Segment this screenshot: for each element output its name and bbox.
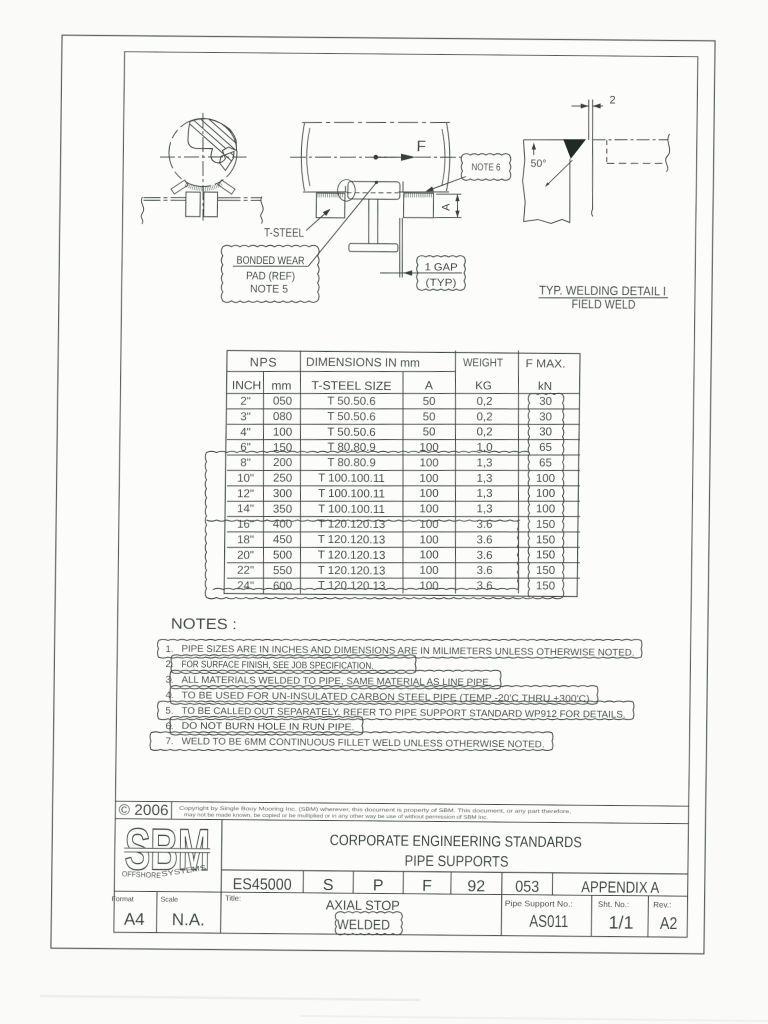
- svg-text:50: 50: [423, 427, 436, 439]
- svg-text:080: 080: [273, 411, 292, 423]
- sheet inner border: [114, 52, 698, 938]
- svg-text:1,3: 1,3: [476, 503, 492, 515]
- weld fillet (solid): [563, 139, 586, 159]
- svg-text:18": 18": [237, 534, 254, 546]
- svg-text:1,3: 1,3: [476, 457, 492, 469]
- svg-text:A: A: [425, 378, 433, 392]
- svg-text:NOTE 6: NOTE 6: [471, 162, 500, 173]
- gap dimension arrow: [380, 272, 462, 273]
- right wear-pad wing: [218, 180, 235, 194]
- svg-text:A: A: [440, 203, 452, 211]
- svg-text:0,2: 0,2: [476, 411, 492, 423]
- svg-text:150: 150: [536, 519, 555, 531]
- svg-text:100: 100: [419, 488, 438, 500]
- axial stop web: [368, 199, 369, 244]
- dimension A line: [456, 194, 459, 217]
- svg-text:WELDED: WELDED: [337, 916, 390, 932]
- svg-text:4": 4": [240, 427, 251, 439]
- svg-text:0,2: 0,2: [476, 427, 492, 439]
- svg-text:T 50.50.6: T 50.50.6: [327, 426, 376, 438]
- left wear-pad wing: [171, 180, 188, 194]
- section hatch blob: [173, 109, 302, 165]
- gap lines: [399, 218, 400, 278]
- svg-text:F MAX.: F MAX.: [525, 358, 565, 370]
- svg-text:S: S: [323, 877, 334, 894]
- svg-text:450: 450: [273, 534, 292, 546]
- svg-text:3.6: 3.6: [477, 580, 493, 592]
- note6 leader: [428, 176, 466, 191]
- run pipe break squiggle: [665, 134, 669, 172]
- svg-text:5.: 5.: [165, 706, 173, 717]
- svg-text:A2: A2: [660, 914, 678, 933]
- weld gap lines: [587, 99, 590, 140]
- svg-text:OFFSHORE: OFFSHORE: [122, 869, 161, 880]
- svg-text:(TYP): (TYP): [425, 277, 456, 289]
- svg-text:APPENDIX A: APPENDIX A: [581, 879, 659, 897]
- svg-text:PIPE SUPPORTS: PIPE SUPPORTS: [404, 853, 508, 871]
- table revision clouds: [526, 394, 532, 597]
- svg-text:150: 150: [536, 550, 555, 562]
- left support rail: [144, 196, 187, 199]
- svg-text:10": 10": [237, 473, 254, 485]
- svg-text:1,3: 1,3: [476, 488, 492, 500]
- svg-text:150: 150: [536, 580, 555, 592]
- left wear pad serration: [317, 193, 319, 197]
- svg-text:AS011: AS011: [529, 912, 568, 931]
- SBM logo letters: [124, 815, 210, 882]
- svg-text:Title:: Title:: [225, 894, 241, 903]
- svg-text:T 120.120.13: T 120.120.13: [318, 580, 386, 593]
- right rail break squiggle: [261, 197, 264, 224]
- svg-text:mm: mm: [271, 378, 291, 392]
- scanner paper shadow bottom-left: [40, 996, 420, 1000]
- svg-text:NOTE 5: NOTE 5: [250, 283, 288, 295]
- svg-text:2: 2: [609, 94, 615, 106]
- sheet outer border: [51, 35, 715, 954]
- svg-text:1/1: 1/1: [608, 912, 633, 932]
- svg-text:100: 100: [536, 488, 555, 500]
- right support rail: [218, 196, 262, 199]
- svg-text:550: 550: [273, 565, 292, 577]
- vertical centerline: [202, 113, 205, 221]
- svg-text:T 100.100.11: T 100.100.11: [318, 488, 385, 501]
- cloud BONDED WEAR PAD: [221, 245, 320, 304]
- svg-text:50°: 50°: [530, 158, 546, 170]
- svg-text:100: 100: [419, 580, 438, 592]
- svg-text:Rev.:: Rev.:: [653, 900, 671, 909]
- svg-text:INCH: INCH: [232, 378, 262, 392]
- axial stop bottom flange: [349, 243, 398, 251]
- pipe cross-section circle: [169, 118, 238, 187]
- svg-text:8": 8": [240, 457, 251, 469]
- svg-text:FIELD WELD: FIELD WELD: [571, 297, 635, 312]
- svg-text:30: 30: [539, 411, 552, 423]
- svg-text:TYP. WELDING DETAIL I: TYP. WELDING DETAIL I: [539, 283, 666, 298]
- svg-text:T 50.50.6: T 50.50.6: [327, 396, 376, 408]
- centerline node dot: [373, 155, 378, 160]
- svg-text:100: 100: [419, 457, 438, 469]
- svg-text:100: 100: [419, 503, 438, 515]
- svg-text:4.: 4.: [165, 690, 173, 701]
- svg-text:100: 100: [273, 426, 292, 438]
- svg-text:24": 24": [237, 580, 254, 592]
- svg-text:Format: Format: [111, 896, 133, 903]
- svg-text:200: 200: [273, 457, 292, 469]
- note 3 revision cloud: [170, 667, 501, 691]
- horizontal centerline: [160, 156, 247, 158]
- run pipe hidden lines: [606, 140, 608, 163]
- table grid: [224, 351, 580, 597]
- svg-text:1,3: 1,3: [476, 473, 492, 485]
- pipe left end arc: [301, 123, 305, 191]
- svg-text:1.: 1.: [165, 644, 173, 655]
- cloud NOTE 6: [461, 153, 511, 180]
- svg-text:14": 14": [237, 503, 254, 515]
- right T-steel support: [403, 193, 433, 218]
- svg-text:600: 600: [273, 580, 292, 592]
- svg-text:T 50.50.6: T 50.50.6: [327, 411, 376, 423]
- svg-text:NOTES :: NOTES :: [171, 615, 237, 633]
- svg-text:PAD (REF): PAD (REF): [246, 270, 295, 282]
- svg-text:2.: 2.: [165, 659, 173, 670]
- pipe bottom edge: [303, 191, 347, 194]
- svg-text:F: F: [422, 878, 432, 895]
- svg-text:150: 150: [536, 565, 555, 577]
- svg-text:0,2: 0,2: [476, 396, 492, 408]
- svg-text:ES45000: ES45000: [233, 876, 292, 894]
- note 4 revision cloud: [170, 682, 598, 708]
- svg-text:500: 500: [273, 550, 292, 562]
- pipe bottom hidden through flange: [346, 191, 398, 194]
- svg-text:12": 12": [237, 488, 254, 500]
- note 1 revision cloud: [157, 635, 642, 662]
- bonded pad leader: [233, 181, 376, 267]
- left T-steel support: [316, 193, 345, 218]
- svg-text:150: 150: [536, 534, 555, 546]
- force arrow F: [378, 156, 402, 159]
- weld-all-around ellipse: [337, 179, 355, 201]
- note 6 revision cloud: [170, 715, 363, 737]
- speck: [90, 77, 92, 79]
- svg-text:30: 30: [539, 426, 552, 438]
- svg-text:N.A.: N.A.: [172, 910, 205, 929]
- svg-text:T 100.100.11: T 100.100.11: [318, 472, 385, 485]
- svg-text:50: 50: [423, 411, 436, 423]
- note 2 revision cloud: [171, 653, 416, 676]
- svg-text:T-STEEL: T-STEEL: [264, 225, 304, 239]
- svg-text:F: F: [416, 138, 426, 155]
- svg-text:Scale: Scale: [160, 897, 178, 904]
- svg-text:100: 100: [419, 473, 438, 485]
- svg-text:KG: KG: [475, 380, 492, 392]
- svg-text:T 80.80.9: T 80.80.9: [327, 457, 376, 469]
- plate outline: [522, 140, 571, 224]
- svg-text:92: 92: [467, 878, 485, 895]
- pipe centerline: [290, 156, 464, 159]
- svg-text:22": 22": [237, 565, 254, 577]
- svg-text:30: 30: [539, 396, 552, 408]
- svg-text:20": 20": [237, 550, 254, 562]
- title block grid: [115, 801, 688, 806]
- cloud WELDED: [335, 911, 403, 935]
- svg-text:Pipe Support No.:: Pipe Support No.:: [505, 899, 573, 909]
- pipe top edge (phantom): [302, 121, 450, 124]
- note 7 revision cloud: [150, 728, 553, 754]
- svg-text:100: 100: [419, 534, 438, 546]
- bevel leader: [547, 160, 573, 185]
- svg-text:050: 050: [273, 396, 292, 408]
- svg-text:T 120.120.13: T 120.120.13: [318, 549, 386, 562]
- right wear pad serration: [404, 193, 406, 197]
- T-steel section right flange: [204, 192, 218, 217]
- svg-text:3.: 3.: [165, 675, 173, 686]
- svg-text:350: 350: [273, 503, 292, 515]
- dim 2 arrows: [571, 105, 588, 107]
- svg-text:Sht. No.:: Sht. No.:: [598, 900, 629, 909]
- dimension A ext lines: [436, 193, 462, 195]
- svg-text:65: 65: [539, 442, 552, 454]
- run pipe centerline: [593, 139, 668, 140]
- svg-text:T 120.120.13: T 120.120.13: [318, 565, 386, 578]
- svg-text:3.6: 3.6: [476, 534, 492, 546]
- svg-text:BONDED WEAR: BONDED WEAR: [236, 255, 304, 268]
- svg-text:7.: 7.: [165, 736, 173, 747]
- svg-text:NPS: NPS: [250, 355, 278, 369]
- svg-text:3.6: 3.6: [476, 565, 492, 577]
- svg-text:kN: kN: [538, 381, 552, 393]
- pipe wall edge: [592, 140, 594, 217]
- axial stop top flange: [348, 181, 400, 199]
- 50deg up arrow: [533, 146, 535, 155]
- svg-text:2": 2": [240, 396, 251, 408]
- pipe right end arc: [446, 123, 450, 191]
- scanner paper shadow bottom-right: [300, 1016, 768, 1021]
- svg-text:T 120.120.13: T 120.120.13: [318, 534, 386, 547]
- svg-text:WEIGHT: WEIGHT: [463, 357, 503, 369]
- cloud 1 GAP (TYP): [416, 255, 465, 290]
- bonded pad serration arc: [220, 182, 222, 186]
- plate top edge: [523, 138, 564, 141]
- svg-text:A4: A4: [124, 910, 145, 929]
- svg-text:100: 100: [536, 473, 555, 485]
- svg-text:T-STEEL SIZE: T-STEEL SIZE: [311, 378, 391, 393]
- svg-text:T 100.100.11: T 100.100.11: [318, 503, 385, 516]
- svg-text:250: 250: [273, 473, 292, 485]
- T-steel section left flange: [186, 192, 201, 217]
- SBM logo stripe: [124, 848, 211, 853]
- svg-text:P: P: [373, 877, 384, 894]
- left rail break squiggle: [141, 197, 144, 224]
- svg-text:50: 50: [423, 396, 436, 408]
- svg-text:053: 053: [515, 879, 539, 896]
- svg-text:CORPORATE ENGINEERING STANDARD: CORPORATE ENGINEERING STANDARDS: [330, 832, 582, 851]
- svg-text:65: 65: [539, 457, 552, 469]
- svg-text:100: 100: [419, 550, 438, 562]
- svg-text:AXIAL STOP: AXIAL STOP: [326, 897, 400, 913]
- note 5 revision cloud: [157, 697, 634, 724]
- svg-text:100: 100: [536, 503, 555, 515]
- svg-text:300: 300: [273, 488, 292, 500]
- svg-text:100: 100: [419, 565, 438, 577]
- svg-text:3": 3": [240, 411, 251, 423]
- svg-text:DIMENSIONS IN mm: DIMENSIONS IN mm: [306, 355, 420, 370]
- svg-text:1 GAP: 1 GAP: [425, 261, 458, 273]
- svg-text:3.6: 3.6: [476, 550, 492, 562]
